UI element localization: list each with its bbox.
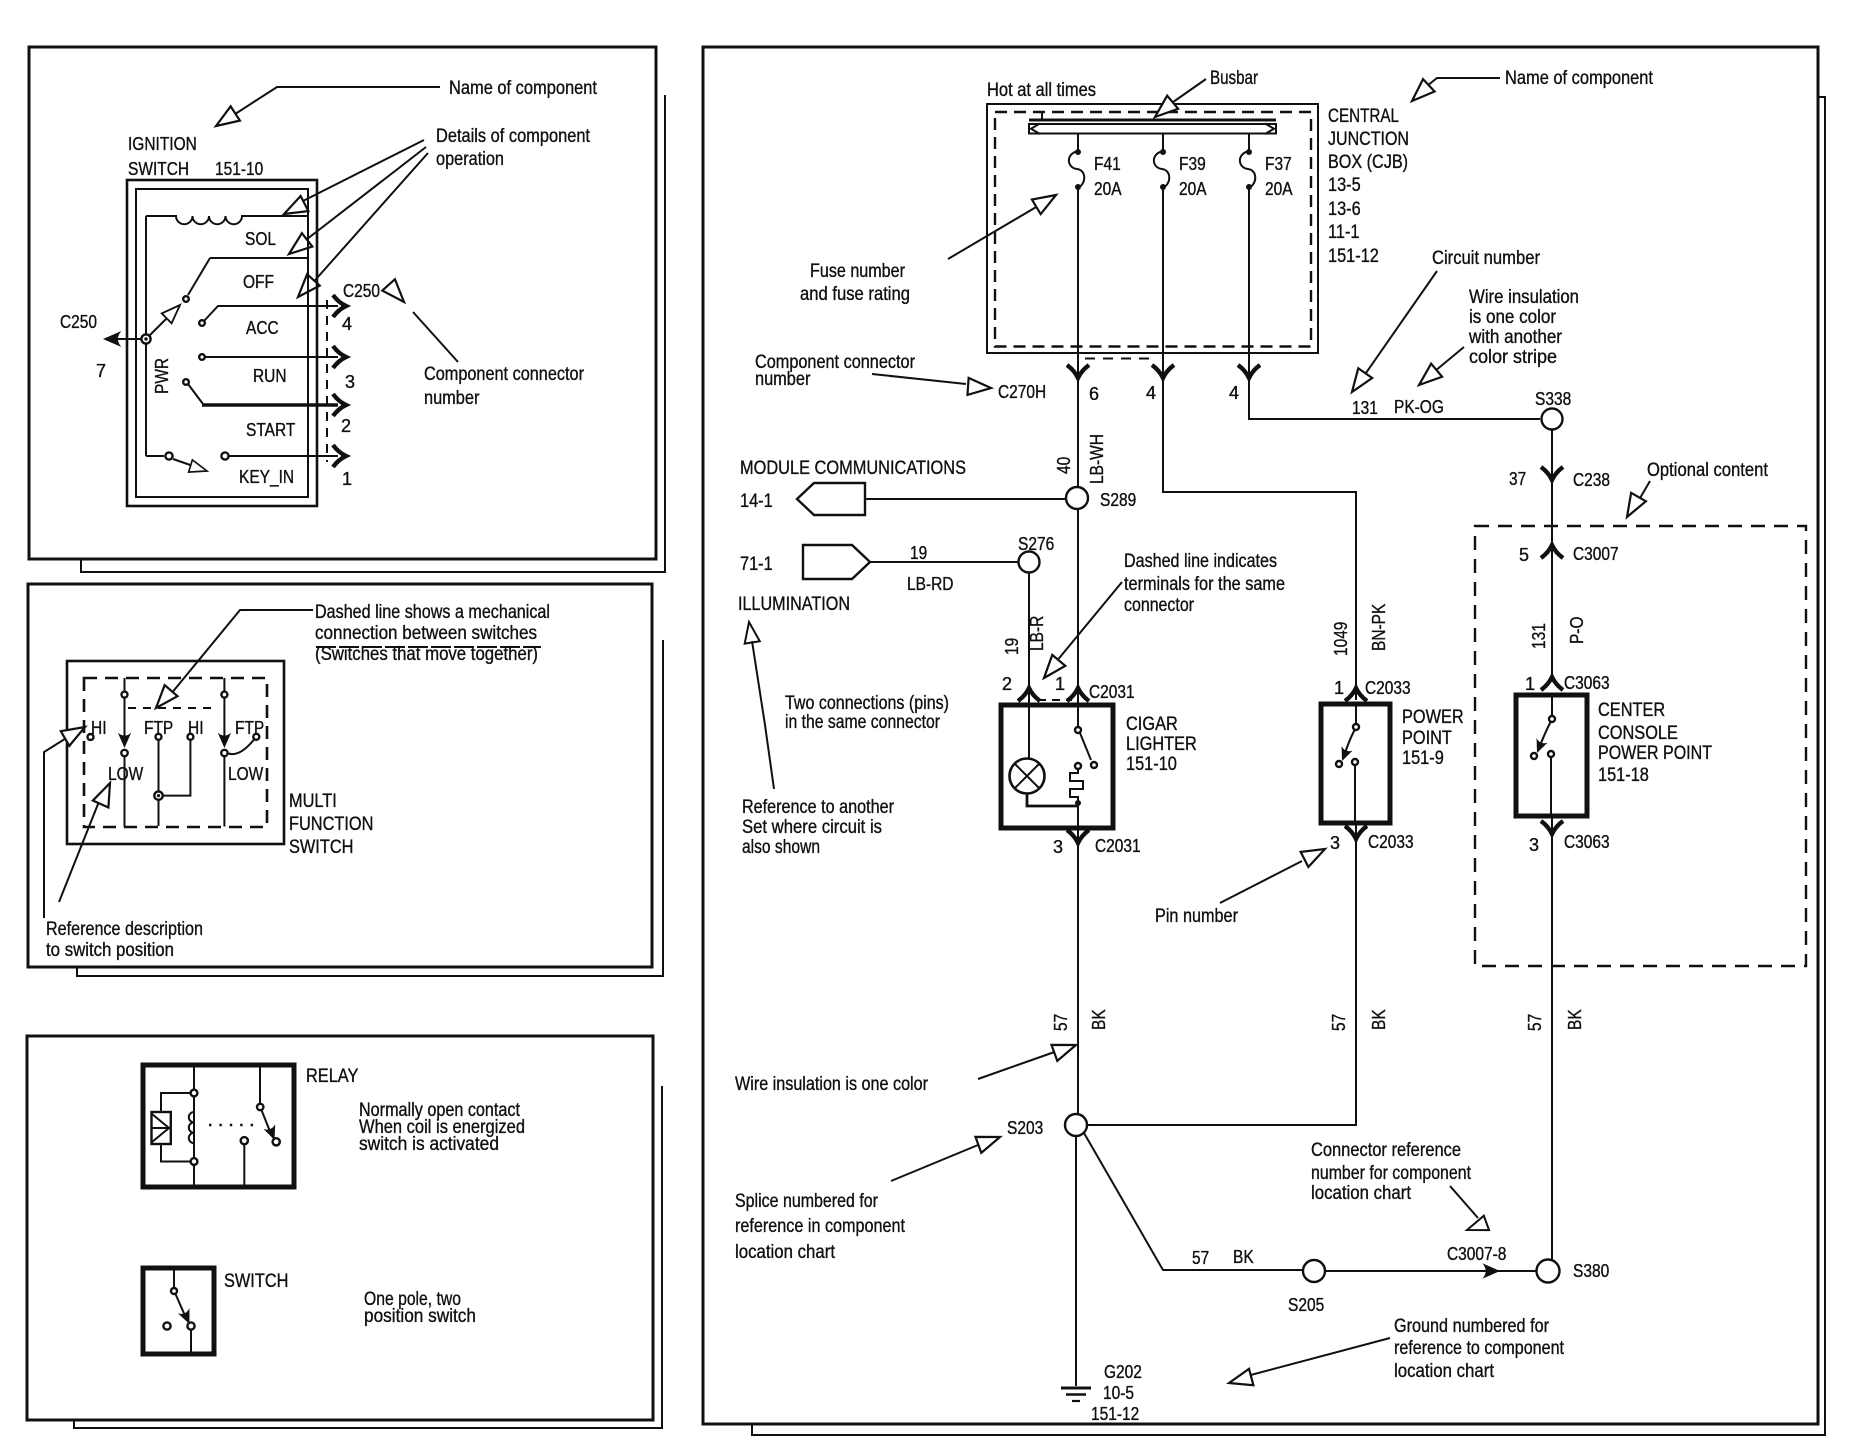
switch 1 arm arrow xyxy=(118,733,131,748)
svg-text:10-5: 10-5 xyxy=(1103,1383,1134,1403)
open arrow 1 xyxy=(280,196,308,222)
switch common wire xyxy=(173,1268,175,1288)
splice S203 xyxy=(1065,1114,1087,1136)
svg-text:13-6: 13-6 xyxy=(1328,199,1361,220)
svg-text:IGNITION: IGNITION xyxy=(128,134,197,154)
svg-text:POINT: POINT xyxy=(1402,728,1452,749)
FTP1 contact xyxy=(156,734,162,740)
open arrow xyxy=(1406,79,1434,107)
svg-text:LOW: LOW xyxy=(228,764,263,784)
connector C2033 chevron pin 1 xyxy=(1345,688,1367,701)
svg-text:57: 57 xyxy=(1329,1014,1349,1031)
svg-text:151-12: 151-12 xyxy=(1328,246,1379,267)
svg-text:Component connector: Component connector xyxy=(424,364,585,385)
module comms flag (points left) xyxy=(797,483,865,515)
multifunction switch dashed box xyxy=(84,678,267,827)
switch arm xyxy=(176,1294,187,1318)
open arrow at C3007-8 xyxy=(1464,1216,1489,1237)
svg-text:Wire insulation: Wire insulation xyxy=(1469,287,1579,308)
svg-text:C250: C250 xyxy=(343,281,380,301)
open arrow at HI xyxy=(61,720,89,746)
svg-text:SWITCH: SWITCH xyxy=(289,837,353,858)
svg-text:Hot at all times: Hot at all times xyxy=(987,80,1096,101)
wire S205 to S380 xyxy=(1325,1270,1536,1272)
busbar leader xyxy=(1166,79,1206,107)
heater element contact xyxy=(1075,763,1081,769)
S203 ground wire xyxy=(1075,1136,1077,1386)
svg-text:is one color: is one color xyxy=(1469,307,1557,328)
svg-text:Reference description: Reference description xyxy=(46,919,203,940)
svg-text:LB-RD: LB-RD xyxy=(907,574,954,594)
splice S276 xyxy=(1019,552,1040,573)
leader line xyxy=(752,641,774,789)
svg-text:number for component: number for component xyxy=(1311,1163,1472,1184)
F41 connector chevron pin 6 xyxy=(1067,365,1089,378)
right panel shadow page xyxy=(752,97,1825,1435)
FTP2 curved arm xyxy=(229,740,255,755)
svg-text:19: 19 xyxy=(1002,638,1022,655)
svg-text:KEY_IN: KEY_IN xyxy=(239,467,294,488)
switch pivot xyxy=(171,1288,177,1294)
switch 2 wiper wire xyxy=(223,678,225,692)
splice S205 xyxy=(1303,1260,1325,1282)
svg-text:MULTI: MULTI xyxy=(289,791,337,812)
svg-text:C2033: C2033 xyxy=(1365,678,1411,698)
svg-text:HI: HI xyxy=(188,718,204,738)
open arrow 2 xyxy=(284,233,313,261)
leader xyxy=(1220,861,1302,903)
svg-text:Ground numbered for: Ground numbered for xyxy=(1394,1316,1550,1337)
svg-text:1: 1 xyxy=(342,469,352,489)
svg-text:POWER POINT: POWER POINT xyxy=(1598,743,1712,764)
panel B shadow page xyxy=(77,640,663,976)
svg-text:CENTRAL: CENTRAL xyxy=(1328,106,1399,127)
open arrow at PK-OG xyxy=(1414,364,1443,392)
ignition switch inner box xyxy=(136,189,308,497)
svg-text:19: 19 xyxy=(910,543,927,563)
connector C3063 chevron pin 1 xyxy=(1541,677,1563,690)
svg-text:LB-WH: LB-WH xyxy=(1087,434,1107,484)
CJB dashed box xyxy=(995,112,1311,347)
svg-text:G202: G202 xyxy=(1104,1362,1142,1382)
leader 1 xyxy=(299,140,424,203)
pin1 wire to switch xyxy=(1077,689,1079,727)
S276 wire down xyxy=(1028,573,1030,688)
PP output wire xyxy=(1354,765,1356,823)
leader xyxy=(1247,1338,1390,1376)
leader xyxy=(1450,1186,1478,1218)
svg-text:S205: S205 xyxy=(1288,1295,1324,1315)
svg-text:57: 57 xyxy=(1051,1014,1071,1031)
svg-text:number: number xyxy=(755,369,811,390)
KEY_IN bus stub xyxy=(146,455,164,457)
CCPP ground wire xyxy=(1551,816,1553,1259)
relay common wire xyxy=(259,1065,261,1104)
KEY_IN arm arrow xyxy=(189,460,209,477)
switch left contact xyxy=(163,1322,170,1329)
svg-text:START: START xyxy=(246,420,295,440)
svg-text:C2031: C2031 xyxy=(1089,682,1135,702)
PWR bus wire xyxy=(145,216,147,456)
connector C250 dashed line xyxy=(326,300,328,462)
leader xyxy=(872,374,966,384)
svg-text:switch is activated: switch is activated xyxy=(359,1134,499,1155)
svg-text:C238: C238 xyxy=(1573,470,1610,490)
svg-text:SWITCH: SWITCH xyxy=(224,1271,288,1292)
panel C border xyxy=(27,1036,653,1420)
switch 2 pivot circle xyxy=(221,692,227,698)
S289 wire down xyxy=(1077,509,1079,687)
CJB solid box xyxy=(987,104,1318,353)
svg-text:SOL: SOL xyxy=(245,229,276,249)
switch 2 output wire xyxy=(223,756,225,826)
svg-text:RELAY: RELAY xyxy=(306,1066,359,1087)
open arrow at ignition name xyxy=(211,106,240,133)
svg-text:151-10: 151-10 xyxy=(1126,754,1177,775)
svg-text:F37: F37 xyxy=(1265,154,1292,174)
switch contact xyxy=(1075,727,1081,733)
open arrow on BK wire xyxy=(1051,1037,1078,1061)
connector C2031 chevron pin 2 xyxy=(1018,688,1040,701)
switch 2 LOW contact xyxy=(221,750,227,756)
PP top contact xyxy=(1353,724,1359,730)
wiper arrow xyxy=(162,300,185,323)
ACC contact xyxy=(199,320,205,326)
resistor wire bottom xyxy=(161,1144,191,1162)
svg-text:with another: with another xyxy=(1468,327,1562,348)
right panel border xyxy=(703,47,1818,1424)
PP left contact xyxy=(1336,761,1342,767)
leader 3 xyxy=(309,153,428,287)
svg-text:20A: 20A xyxy=(1265,179,1293,199)
wiper arm xyxy=(148,314,171,337)
FTP1 wire down xyxy=(158,740,160,792)
svg-text:4: 4 xyxy=(1146,383,1156,403)
F39 connector chevron pin 4 xyxy=(1152,365,1174,378)
C2031 dashed line xyxy=(1038,699,1072,701)
switch 1 output wire xyxy=(124,756,126,827)
svg-text:C270H: C270H xyxy=(998,382,1046,402)
svg-text:Optional content: Optional content xyxy=(1647,460,1769,481)
leader xyxy=(1636,481,1650,505)
KEY_IN arm xyxy=(173,459,196,467)
svg-text:151-12: 151-12 xyxy=(1091,1404,1139,1424)
svg-text:ILLUMINATION: ILLUMINATION xyxy=(738,594,850,615)
svg-text:color stripe: color stripe xyxy=(1469,347,1557,368)
connector C3063 chevron pin 3 xyxy=(1541,821,1563,834)
OFF contact line xyxy=(210,257,308,259)
leader 2 xyxy=(302,147,426,243)
svg-text:BK: BK xyxy=(1369,1009,1389,1030)
CCPP top contact xyxy=(1549,716,1555,722)
svg-text:20A: 20A xyxy=(1179,179,1207,199)
PP ground wire xyxy=(1087,823,1356,1125)
F37 wire to S338 xyxy=(1249,187,1540,419)
KEY_IN pin arrow xyxy=(333,445,346,467)
CCPP output contact xyxy=(1548,751,1554,757)
svg-text:and fuse rating: and fuse rating xyxy=(800,284,910,305)
pin2 wire to lamp xyxy=(1028,689,1030,758)
svg-text:also shown: also shown xyxy=(742,837,820,858)
PP output contact xyxy=(1352,759,1358,765)
svg-text:C3007-8: C3007-8 xyxy=(1447,1244,1506,1264)
relay NC contact xyxy=(241,1137,248,1144)
svg-text:Splice numbered for: Splice numbered for xyxy=(735,1191,879,1212)
relay arm arrow xyxy=(263,1124,280,1142)
connector C2033 chevron pin 3 xyxy=(1345,826,1367,839)
multifunction switch box xyxy=(67,661,284,844)
arrow to S380 xyxy=(1482,1263,1500,1278)
svg-text:location chart: location chart xyxy=(1311,1183,1412,1204)
fuse F39 20A xyxy=(1162,133,1164,152)
underline artifact xyxy=(316,646,541,648)
svg-text:reference in component: reference in component xyxy=(735,1216,906,1237)
leader to LOW xyxy=(59,794,102,902)
switch output wire xyxy=(190,1330,192,1354)
svg-text:CENTER: CENTER xyxy=(1598,700,1665,721)
mechanical link dotted xyxy=(209,1124,254,1127)
svg-text:7: 7 xyxy=(96,361,106,381)
F41 wire down xyxy=(1077,187,1079,487)
ACC pin arrow xyxy=(333,295,346,317)
open arrow xyxy=(1620,493,1646,521)
svg-text:20A: 20A xyxy=(1094,179,1122,199)
open arrow 3 xyxy=(292,274,320,302)
open arrow xyxy=(382,279,410,307)
svg-text:BK: BK xyxy=(1565,1009,1585,1030)
svg-text:reference to component: reference to component xyxy=(1394,1338,1565,1359)
svg-text:57: 57 xyxy=(1525,1014,1545,1031)
switch 1 wiper wire xyxy=(124,678,126,692)
wire flag to S289 xyxy=(865,498,1066,500)
pin3 wire xyxy=(1077,806,1079,1114)
svg-text:3: 3 xyxy=(345,372,355,392)
svg-text:Fuse number: Fuse number xyxy=(810,261,906,282)
wire flag to S276 xyxy=(870,561,1018,563)
svg-text:S276: S276 xyxy=(1018,534,1054,554)
svg-text:ACC: ACC xyxy=(246,318,279,338)
svg-text:Dashed line shows a mechanical: Dashed line shows a mechanical xyxy=(315,602,550,623)
leader to HI xyxy=(44,732,76,918)
svg-text:Dashed line indicates: Dashed line indicates xyxy=(1124,551,1277,572)
svg-text:PWR: PWR xyxy=(152,358,172,394)
S203 diagonal wire xyxy=(1084,1133,1303,1270)
CCPP output wire xyxy=(1550,757,1552,816)
svg-text:151-10: 151-10 xyxy=(215,159,263,179)
splice S338 xyxy=(1542,409,1563,430)
illumination flag (points right) xyxy=(803,545,870,579)
svg-text:Details of component: Details of component xyxy=(436,126,591,147)
svg-text:131: 131 xyxy=(1352,398,1378,418)
leader xyxy=(1422,78,1500,90)
svg-text:1: 1 xyxy=(1525,674,1535,694)
svg-text:2: 2 xyxy=(1002,674,1012,694)
svg-text:4: 4 xyxy=(342,314,352,334)
CCPP left contact xyxy=(1531,753,1537,759)
RUN pin arrow xyxy=(333,346,346,368)
C270H dashed connector line xyxy=(1085,358,1157,360)
leader xyxy=(1359,271,1437,383)
fuse leader xyxy=(948,203,1043,259)
svg-text:CONSOLE: CONSOLE xyxy=(1598,723,1678,744)
svg-text:Wire insulation is one color: Wire insulation is one color xyxy=(735,1074,929,1095)
switch right contact xyxy=(187,1322,194,1329)
junction node xyxy=(154,791,162,799)
OFF contact xyxy=(183,296,189,302)
CCPP arm arrow xyxy=(1531,738,1547,755)
OFF switch arm xyxy=(188,258,210,295)
connector C2031 chevron pin 1 xyxy=(1067,688,1089,701)
svg-text:connection between switches: connection between switches xyxy=(315,623,537,644)
open arrow at 131 xyxy=(1345,368,1372,397)
svg-text:POWER: POWER xyxy=(1402,707,1464,728)
svg-text:C2031: C2031 xyxy=(1095,836,1141,856)
svg-text:BN-PK: BN-PK xyxy=(1369,604,1389,651)
relay coil wire xyxy=(193,1065,195,1187)
svg-text:location chart: location chart xyxy=(1394,1361,1495,1382)
open arrow at C270H xyxy=(967,378,991,397)
lamp to common wire xyxy=(1027,794,1078,807)
svg-text:4: 4 xyxy=(1229,383,1239,403)
svg-text:location chart: location chart xyxy=(735,1242,836,1263)
switch 1 LOW contact xyxy=(121,750,127,756)
ground G202 xyxy=(1061,1387,1091,1390)
svg-text:BK: BK xyxy=(1089,1009,1109,1030)
START pin arrow xyxy=(333,394,346,416)
CCPP wire in xyxy=(1551,695,1553,716)
switch arm arrow xyxy=(178,1308,195,1326)
connector C2031 chevron pin 3 xyxy=(1067,830,1089,843)
PP switch arm xyxy=(1345,730,1355,755)
open arrow at LOW xyxy=(93,780,118,808)
svg-text:40: 40 xyxy=(1054,457,1074,474)
svg-text:to switch position: to switch position xyxy=(46,940,174,961)
svg-text:PK-OG: PK-OG xyxy=(1394,397,1444,417)
svg-text:3: 3 xyxy=(1053,837,1063,857)
relay NO contact xyxy=(273,1138,280,1145)
connector C238 chevron xyxy=(1541,467,1563,480)
HI contact circle xyxy=(88,734,94,740)
svg-text:Name of component: Name of component xyxy=(449,78,598,99)
panel A border xyxy=(29,47,656,559)
svg-text:Name of component: Name of component xyxy=(1505,68,1654,89)
wire to C250 pin 7 xyxy=(108,338,141,340)
lamp xyxy=(1010,759,1045,794)
busbar arrow xyxy=(1150,96,1179,124)
leader to component name xyxy=(229,87,440,118)
svg-text:MODULE COMMUNICATIONS: MODULE COMMUNICATIONS xyxy=(740,458,966,479)
svg-text:position switch: position switch xyxy=(364,1306,476,1327)
leader xyxy=(978,1049,1063,1079)
svg-text:C3063: C3063 xyxy=(1564,832,1610,852)
svg-text:151-18: 151-18 xyxy=(1598,765,1649,786)
leader xyxy=(166,610,313,700)
leader xyxy=(1051,582,1122,668)
resistor R xyxy=(152,1112,171,1144)
svg-text:131: 131 xyxy=(1529,623,1549,649)
svg-text:13-5: 13-5 xyxy=(1328,175,1361,196)
svg-text:11-1: 11-1 xyxy=(1328,222,1360,243)
fuse F37 20A xyxy=(1248,133,1250,152)
svg-text:terminals for the same: terminals for the same xyxy=(1124,574,1285,595)
START switch arm xyxy=(188,384,203,404)
svg-text:operation: operation xyxy=(436,149,504,170)
svg-text:C250: C250 xyxy=(60,312,97,332)
optional content dashed box xyxy=(1475,526,1806,966)
HI2 contact xyxy=(187,734,193,740)
power point box xyxy=(1321,704,1390,823)
svg-text:LB-R: LB-R xyxy=(1027,616,1047,651)
svg-text:Pin number: Pin number xyxy=(1155,906,1239,927)
connector C3007 chevron pin 5 xyxy=(1541,545,1563,558)
svg-text:FUNCTION: FUNCTION xyxy=(289,814,373,835)
illumination leader arrow xyxy=(741,621,759,644)
svg-text:151-9: 151-9 xyxy=(1402,748,1444,769)
switch 1 pivot circle xyxy=(122,692,128,698)
junction wire to HI2 xyxy=(163,740,191,796)
relay pivot contact xyxy=(257,1104,263,1110)
switch 1 arm xyxy=(124,698,126,738)
svg-text:CIGAR: CIGAR xyxy=(1126,714,1178,735)
svg-text:OFF: OFF xyxy=(243,272,274,292)
splice S380 xyxy=(1537,1260,1560,1283)
START wire (heavy) xyxy=(202,403,338,407)
open arrow at mech link xyxy=(150,685,178,714)
svg-text:14-1: 14-1 xyxy=(740,491,773,512)
svg-text:S380: S380 xyxy=(1573,1261,1609,1281)
svg-text:Circuit number: Circuit number xyxy=(1432,248,1541,269)
PP arm arrow xyxy=(1336,746,1352,763)
svg-text:Set where circuit is: Set where circuit is xyxy=(742,817,882,838)
fuse F41 20A xyxy=(1077,133,1079,152)
svg-text:1: 1 xyxy=(1334,678,1344,698)
svg-text:1: 1 xyxy=(1055,674,1065,694)
svg-text:P-O: P-O xyxy=(1567,617,1587,645)
CCPP switch arm xyxy=(1540,722,1551,747)
heater element xyxy=(1070,769,1083,801)
coil top terminal xyxy=(191,1090,198,1097)
resistor wire top xyxy=(161,1093,191,1112)
solenoid coil SOL xyxy=(146,216,308,224)
svg-text:F39: F39 xyxy=(1179,154,1206,174)
RUN contact xyxy=(199,354,205,360)
svg-text:JUNCTION: JUNCTION xyxy=(1328,129,1409,150)
svg-text:BK: BK xyxy=(1233,1247,1254,1267)
open arrow near G202 xyxy=(1227,1369,1254,1391)
svg-text:S289: S289 xyxy=(1100,490,1136,510)
svg-text:Busbar: Busbar xyxy=(1210,68,1259,89)
panel B border xyxy=(28,584,652,967)
solid arrow pin 7 xyxy=(103,331,121,347)
open arrow at S203 xyxy=(975,1129,1002,1153)
svg-text:BOX (CJB): BOX (CJB) xyxy=(1328,152,1408,173)
svg-text:C3007: C3007 xyxy=(1573,544,1619,564)
panel C shadow page xyxy=(74,1086,662,1428)
busbar step xyxy=(1041,112,1043,120)
F39 wire to power point xyxy=(1163,187,1356,700)
splice S289 xyxy=(1066,487,1088,509)
svg-text:2: 2 xyxy=(341,416,351,436)
svg-text:3: 3 xyxy=(1330,833,1340,853)
svg-text:5: 5 xyxy=(1519,545,1529,565)
svg-text:C2033: C2033 xyxy=(1368,832,1414,852)
ACC wire xyxy=(204,306,338,321)
svg-text:57: 57 xyxy=(1192,1248,1209,1268)
arm contact xyxy=(1091,762,1097,768)
switch arm xyxy=(1080,733,1091,760)
relay box xyxy=(143,1065,294,1187)
FTP2 contact xyxy=(253,734,259,740)
